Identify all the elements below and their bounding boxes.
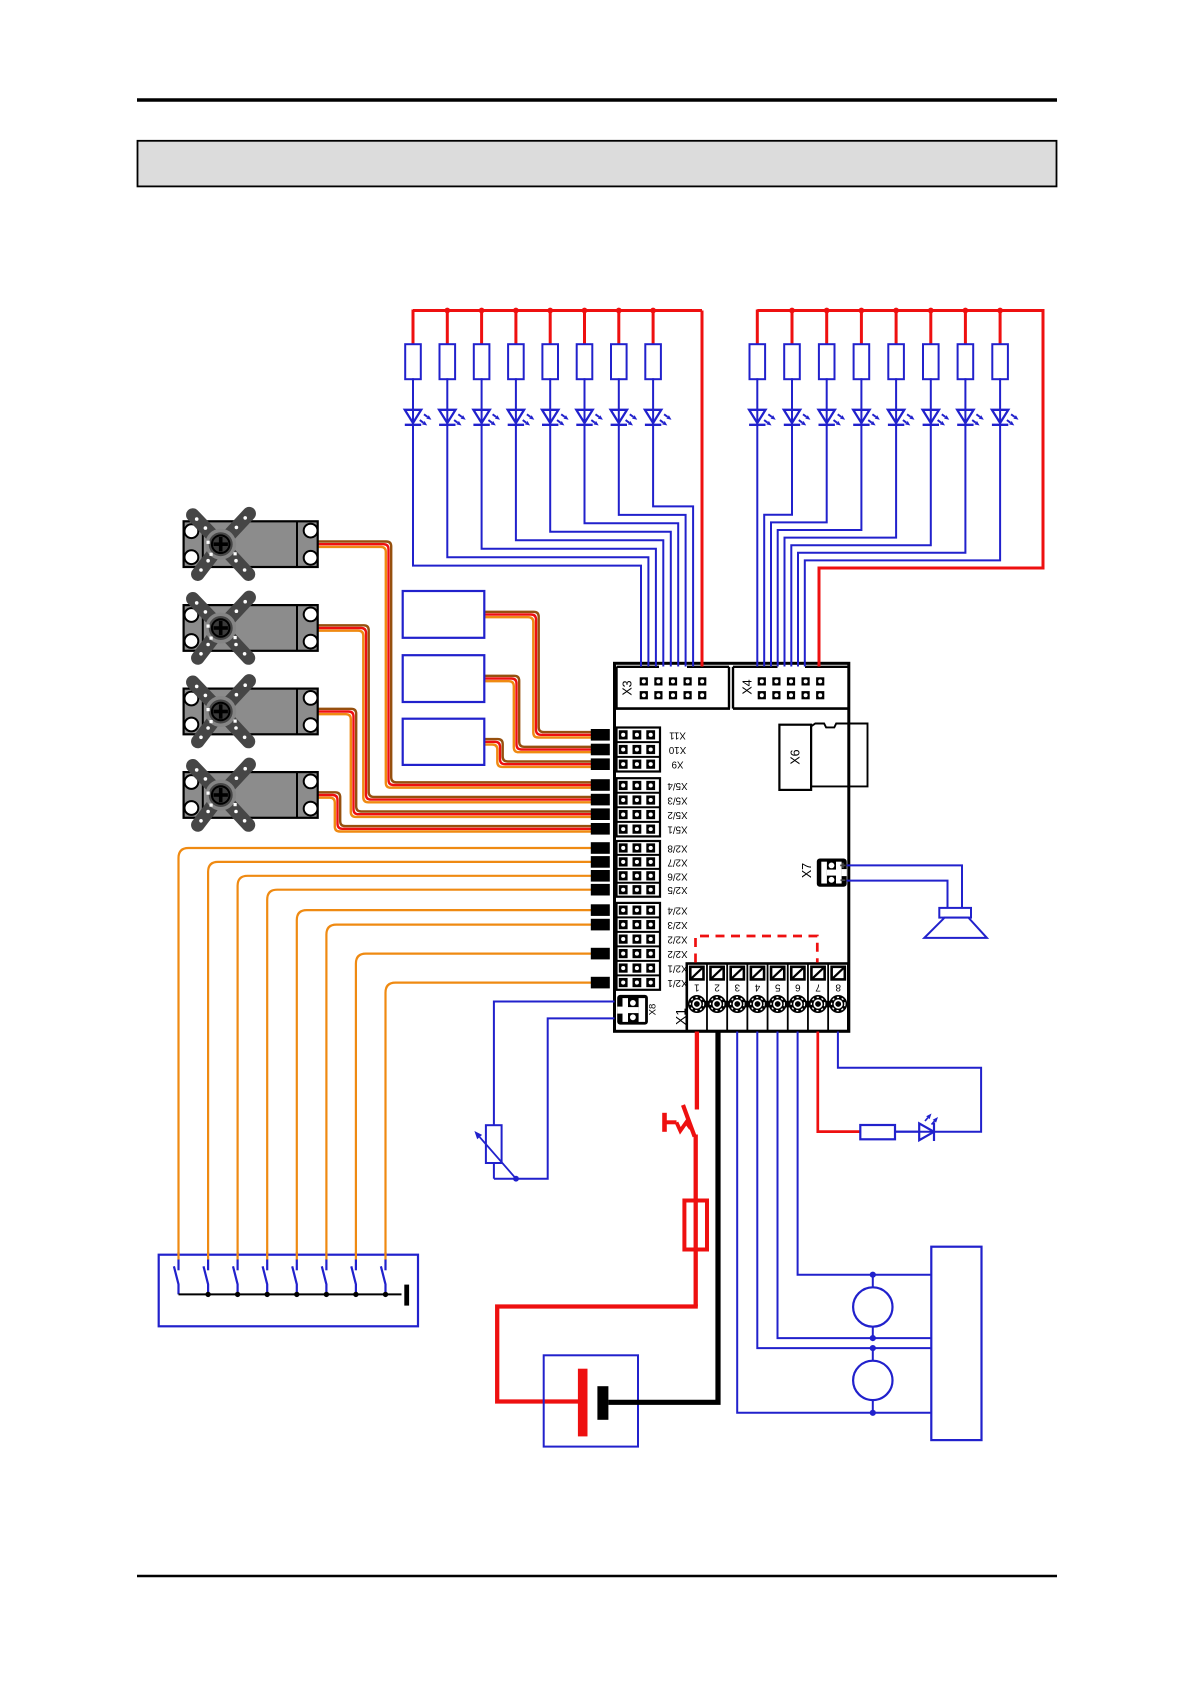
svg-text:X5/1: X5/1 [667,824,687,835]
junction motor wire [870,1335,876,1341]
header rule [137,98,1057,102]
wire X2/6 to switch [238,876,593,1260]
LED D10 [784,410,811,426]
switch S7 [322,1252,327,1294]
junction switch bus [324,1292,329,1297]
label box 2 cable [484,676,592,752]
junction switch bus [353,1292,358,1297]
controller board outline [615,663,849,1031]
svg-text:X1: X1 [673,1008,689,1025]
wire X2/5 to switch [267,890,592,1260]
junction left bus tap 6 [582,308,588,314]
svg-text:X7: X7 [800,863,814,878]
resistor R8 [645,310,661,380]
servo M2 [184,597,318,658]
switch S3 [204,1252,209,1294]
junction switch bus [294,1292,299,1297]
resistor R16 [992,310,1008,380]
servo M3 [184,681,318,742]
X1 screw 6 [789,995,811,1013]
resistor R5 [542,310,558,380]
wire LED D3 to X3 [482,378,656,666]
junction right bus tap 4 [859,308,865,314]
cable socket [591,758,610,770]
switch S8 [351,1252,356,1294]
wire X1/3 to motor 2 bottom [737,1032,931,1413]
X1 clamp 5 [771,967,784,993]
wire LED D14 to X4 [791,378,931,666]
connector X4 [733,667,848,709]
svg-text:1: 1 [694,981,700,992]
svg-text:2: 2 [714,981,720,992]
LED D16 [992,410,1019,426]
potentiometer P1 [474,1125,516,1179]
junction switch bus [383,1292,388,1297]
X1 label [673,1008,689,1025]
X1 screw 8 [829,995,847,1013]
X1 screw 1 [688,995,710,1013]
LED D13 [888,410,915,426]
cable socket [591,884,610,896]
X1 screw 7 [809,995,831,1013]
cable socket [591,870,610,882]
resistor R15 [958,310,974,380]
svg-text:7: 7 [815,981,821,992]
wire fuse to battery + [497,1307,698,1402]
wire X2/1 to switch [386,983,593,1260]
switch S2 [174,1252,179,1294]
svg-text:X2/1: X2/1 [667,977,687,988]
label box 3 [403,719,485,765]
pin headers X2/4..X2/1 [617,903,688,990]
LED D4 [508,410,535,426]
wire LED D2 to X3 [447,378,648,666]
wire X1/4 to motor 2 top [757,1032,931,1349]
resistor R1 [405,310,421,380]
X1 clamp 6 [791,967,804,993]
wire X1/5 to motor 1 bottom [778,1032,932,1339]
servo M2 cable [318,625,593,802]
X1 clamp 3 [731,967,744,993]
svg-text:X8: X8 [648,1004,659,1016]
X1 screw 5 [769,995,791,1013]
jumper link dashed X1/1 - X1/7 [696,936,818,963]
servo M4 [184,764,318,825]
servo M1 [184,514,318,575]
wire LED D11 to X4 [771,378,827,666]
wire X8/1 to potentiometer [494,1002,615,1126]
LED D14 [923,410,950,426]
junction motor wire [870,1345,876,1351]
+V bus right LED group [757,309,1043,312]
junction left bus tap 2 [444,308,450,314]
svg-text:X2/3: X2/3 [667,919,688,930]
svg-text:X5/2: X5/2 [667,809,687,820]
svg-text:X2/1: X2/1 [667,963,687,974]
svg-text:X3: X3 [621,680,635,695]
switch common bus [179,1285,410,1306]
terminal X8 [617,995,658,1025]
+V bus left LED group [413,309,702,312]
terminal strip X1 [687,964,849,1032]
junction right bus tap 5 [893,308,899,314]
label box 2 [403,655,485,702]
junction left bus tap 5 [547,308,553,314]
wire X2/3 to switch [326,925,592,1260]
wire LED D13 to X4 [785,378,897,666]
wire X2/2 to switch [356,954,593,1260]
servo M3 cable [318,709,593,817]
X1 clamp 2 [710,967,723,993]
wire switch to fuse [694,1135,698,1307]
svg-text:6: 6 [795,981,801,992]
junction left bus tap 8 [650,308,656,314]
servo M1 cable [318,542,593,788]
svg-text:3: 3 [734,981,740,992]
svg-text:5: 5 [774,981,780,992]
junction switch bus [235,1292,240,1297]
resistor R6 [577,310,593,380]
speaker LS1 [924,908,987,938]
cable socket [591,842,610,854]
LED D3 [473,410,500,426]
junction right bus tap 7 [963,308,969,314]
switch S9 [381,1252,386,1294]
cable socket [591,977,610,989]
svg-text:X11: X11 [669,729,686,740]
svg-text:X10: X10 [668,744,686,755]
svg-text:X6: X6 [788,749,802,764]
gearbox [931,1247,981,1440]
wire X7+ to speaker [847,865,962,908]
cable socket [591,744,610,756]
wire LED D9 to X4 [756,378,758,666]
junction left bus tap 4 [513,308,519,314]
LED D8 [645,410,672,426]
svg-text:X5/3: X5/3 [667,795,688,806]
svg-text:8: 8 [835,981,841,992]
cable socket [591,919,610,931]
pin headers X5/4..X5/1 [617,778,688,836]
wire LED D4 to X3 [516,378,663,666]
label box 3 cable [484,739,592,767]
DIP switch box [159,1255,418,1327]
switch S1 [665,1105,695,1137]
wire X1/6 to motor 1 top [798,1032,932,1275]
svg-text:X2/7: X2/7 [667,856,687,867]
svg-text:X5/4: X5/4 [667,780,688,791]
svg-text:X2/2: X2/2 [667,934,687,945]
junction switch bus [265,1292,270,1297]
wire LED D16 to X4 [805,378,1000,666]
junction right bus tap 6 [928,308,934,314]
junction right bus tap 2 [789,308,795,314]
label box 1 cable [484,612,592,738]
wire LED D6 to X3 [585,378,679,666]
X1 screw 3 [728,995,750,1013]
junction motor wire [870,1410,876,1416]
X1 screw 4 [748,995,770,1013]
wire left bus to X3 [701,311,704,667]
LED D7 [611,410,638,426]
wire LED D5 to X3 [550,378,671,666]
pin headers X2/8..X2/5 [617,841,688,897]
svg-text:X9: X9 [672,759,684,770]
junction motor wire [870,1272,876,1278]
wire X1/1 to switch [695,1032,699,1110]
junction switch bus [205,1292,210,1297]
LED D6 [576,410,603,426]
svg-text:X2/4: X2/4 [667,905,688,916]
wire X8/2 to potentiometer [494,1018,615,1178]
battery BT1 [544,1355,638,1446]
LED D15 [957,410,984,426]
title bar [138,141,1057,187]
resistor R14 [923,310,939,380]
cable socket [591,794,610,806]
LED D1 [405,410,432,426]
svg-text:X2/2: X2/2 [667,948,687,959]
wire LED D15 to X4 [798,378,965,666]
X1 screw 2 [708,995,730,1013]
resistor R17 [860,1125,919,1139]
resistor R7 [611,310,627,380]
resistor R11 [819,310,835,380]
resistor R13 [888,310,904,380]
connector X3 [616,667,731,709]
cable socket [591,729,610,741]
connector X6 socket [779,725,811,790]
cable socket [591,808,610,820]
junction right bus tap 8 [997,308,1003,314]
wire LED D17 to X1/8 [838,1032,981,1132]
X1 clamp 7 [811,967,824,993]
wire X7- to speaker [847,881,948,909]
LED D2 [439,410,466,426]
resistor R9 [750,310,766,380]
svg-text:X2/5: X2/5 [667,884,688,895]
motor 2 [853,1348,892,1413]
label box 1 [403,591,485,638]
junction right bus tap 3 [824,308,830,314]
switch S4 [233,1252,238,1294]
wire right bus to X4 [819,309,1043,667]
wire LED D12 to X4 [778,378,862,666]
junction left bus tap 7 [616,308,622,314]
cable socket [591,856,610,868]
wire X1/7 to resistor R17 [818,1032,861,1132]
terminal X7 [800,859,847,887]
fuse F1 [684,1201,707,1250]
cable socket [591,823,610,835]
X1 clamp 1 [690,967,703,993]
junction left bus tap 3 [479,308,485,314]
wire LED D10 to X4 [764,378,792,666]
svg-text:X2/8: X2/8 [667,842,688,853]
svg-text:4: 4 [754,981,760,992]
resistor R2 [440,310,456,380]
wire X2/7 to switch [208,862,592,1260]
resistor R4 [508,310,524,380]
svg-text:X2/6: X2/6 [667,870,688,881]
wire X2/4 to switch [297,910,593,1260]
wire LED D1 to X3 [413,378,641,666]
pin headers X11 X10 X9 [617,728,687,772]
LED D5 [542,410,569,426]
wire LED D8 to X3 [653,378,693,666]
resistor R12 [854,310,870,380]
svg-text:X4: X4 [741,679,755,694]
switch S5 [263,1252,268,1294]
wire battery - to X1/2 [608,1032,718,1403]
wire X2/8 to switch [179,848,593,1260]
cable socket [591,779,610,791]
footer rule [137,1575,1057,1578]
resistor R10 [784,310,800,380]
switch S6 [292,1252,297,1294]
X1 clamp 8 [832,967,845,993]
cable socket [591,948,610,960]
X1 clamp 4 [751,967,764,993]
junction potentiometer wiper [513,1176,519,1182]
cable socket [591,904,610,916]
wire LED D7 to X3 [619,378,686,666]
LED D11 [819,410,846,426]
LED D9 [749,410,776,426]
servo M4 cable [318,792,593,831]
LED D17 [895,1114,938,1142]
memory card in X6 [811,724,867,787]
motor 1 [853,1275,892,1338]
LED D12 [853,410,880,426]
resistor R3 [474,310,490,380]
